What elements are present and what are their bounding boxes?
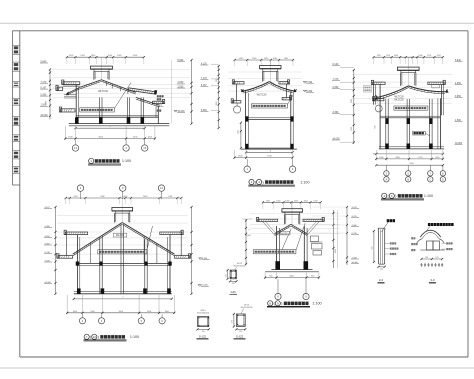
- drawing D rafter posts: [89, 242, 91, 263]
- drawing D right eave coping: [175, 256, 190, 259]
- drawing E left wing coping: [258, 219, 278, 221]
- drawing A left lower coping: [61, 109, 76, 112]
- svg-text:1:100: 1:100: [300, 180, 309, 184]
- drawing A main roof slopes: [80, 80, 102, 88]
- page top edge line: [0, 22, 474, 24]
- svg-text:370: 370: [232, 320, 234, 323]
- small label box between B and C: [364, 86, 372, 93]
- svg-text:1750: 1750: [418, 157, 422, 159]
- drawing E : section, bottom-middle: [263, 201, 321, 203]
- drawing D base black columns: [77, 288, 81, 293]
- drawing B title: [249, 179, 254, 184]
- page bottom edge line: [0, 367, 474, 369]
- drawing E wing struts: [263, 221, 276, 236]
- left title strip: [12, 31, 14, 185]
- drawing B right wall step: [286, 84, 288, 98]
- svg-text:4400: 4400: [335, 249, 337, 253]
- svg-text:1437: 1437: [377, 55, 381, 57]
- detail 3-3 bold label: [428, 223, 431, 226]
- svg-text:2500: 2500: [90, 311, 94, 313]
- svg-text:1:100: 1:100: [424, 194, 433, 198]
- drawing C bottom dims: [376, 153, 443, 155]
- svg-text:G-JZ1: G-JZ1: [199, 334, 207, 338]
- drawing B beams: [246, 119, 294, 121]
- drawing B : section, top-middle: [235, 59, 293, 61]
- drawing D mid beam: [77, 262, 170, 264]
- drawing B bottom dims: [246, 151, 293, 153]
- drawing D bottom grid bubbles: [82, 314, 84, 317]
- svg-text:3-3: 3-3: [430, 278, 435, 282]
- svg-text:5000: 5000: [119, 311, 123, 313]
- drawing C left vdim: [353, 70, 355, 144]
- svg-text:1437: 1437: [313, 200, 317, 202]
- svg-text:1050: 1050: [276, 200, 280, 202]
- drawing A boxed note with leader: [80, 108, 115, 112]
- svg-text:1500: 1500: [351, 127, 353, 131]
- drawing A left step box: [57, 87, 63, 90]
- svg-text:370: 370: [202, 331, 205, 333]
- svg-text:G-JZ2: G-JZ2: [236, 334, 244, 338]
- drawing A title: [89, 158, 94, 163]
- drawing A ridge ornament: [91, 66, 113, 69]
- svg-text:1502: 1502: [238, 130, 240, 134]
- drawing D right elevations (between D and E): [191, 207, 193, 294]
- drawing A right extension line: [171, 60, 173, 124]
- detail 2-2 bottom dim: [379, 266, 385, 268]
- svg-text:1050: 1050: [303, 200, 307, 202]
- drawing D bottom total dim: [74, 298, 172, 300]
- svg-text:3600: 3600: [216, 102, 218, 106]
- drawing B eave tip ornaments: [241, 89, 244, 93]
- drawing frame border: [13, 30, 469, 32]
- svg-text:1:100: 1:100: [122, 159, 131, 163]
- svg-text:1050: 1050: [418, 55, 422, 57]
- drawing D top grid bubbles: [77, 185, 83, 191]
- drawing E ridge ornament: [282, 209, 303, 212]
- svg-text:WLX30: WLX30: [116, 234, 125, 237]
- drawing E base: [271, 269, 312, 271]
- svg-text:1437: 1437: [266, 200, 270, 202]
- svg-text:650: 650: [374, 126, 376, 129]
- svg-text:4200: 4200: [289, 276, 293, 278]
- drawing B roof slopes with upturned eaves: [241, 82, 270, 92]
- drawing E columns: [276, 226, 278, 270]
- svg-text:C: C: [429, 177, 431, 181]
- svg-text:1:100: 1:100: [130, 335, 139, 339]
- svg-text:900: 900: [269, 276, 272, 278]
- svg-text:GZ1: GZ1: [231, 290, 237, 294]
- drawing A right lower roof: [136, 97, 160, 105]
- drawing E right wing coping: [303, 219, 323, 221]
- detail 3-3 tile section: [420, 230, 441, 237]
- drawing B left coping: [234, 82, 245, 84]
- drawing E left vdim: [245, 219, 247, 265]
- drawing A left eave tip: [66, 91, 69, 94]
- svg-text:A: A: [386, 177, 388, 181]
- svg-text:Φ6@100/200: Φ6@100/200: [197, 312, 210, 315]
- drawing B base line: [241, 148, 297, 150]
- drawing A : section, top-left: [67, 56, 144, 58]
- svg-text:2500: 2500: [147, 311, 151, 313]
- svg-text:1750: 1750: [386, 55, 390, 57]
- drawing C eave tip ornaments: [375, 96, 378, 100]
- drawing A grid bubbles: [75, 140, 77, 145]
- drawing D gable wall edge verticals: [65, 235, 67, 256]
- detail 3-3 right notes: [446, 242, 448, 244]
- drawing D left mid coping: [65, 232, 87, 235]
- drawing E right elevation chain: [346, 207, 348, 266]
- detail 2-2 right notes: [390, 242, 392, 244]
- drawing C left coping: [373, 82, 386, 84]
- detail GZ1 column section: [230, 270, 236, 279]
- drawing C ridge ornament: [397, 67, 419, 70]
- drawing B ridge ornament: [260, 66, 281, 69]
- drawing B left wall steps + detail circle: [236, 84, 238, 101]
- svg-text:300: 300: [216, 79, 218, 82]
- svg-text:1050: 1050: [294, 200, 298, 202]
- detail 2-2 coping section: [378, 228, 385, 264]
- svg-text:B: B: [407, 177, 409, 181]
- drawing C right wall: [441, 85, 443, 116]
- svg-text:900: 900: [311, 276, 314, 278]
- svg-text:250: 250: [239, 331, 242, 333]
- drawing D left eave coping: [58, 256, 73, 259]
- svg-text:12: 12: [93, 335, 97, 339]
- svg-text:1437: 1437: [436, 55, 440, 57]
- drawing E grid bubbles: [277, 279, 279, 293]
- svg-text:1600: 1600: [379, 157, 383, 159]
- drawing C left gable wall edge: [372, 85, 374, 105]
- svg-text:1437: 1437: [168, 196, 172, 198]
- drawing D top dim: [66, 197, 182, 199]
- drawing A bottom total dim: [76, 127, 145, 129]
- drawing A beams and base: [76, 116, 158, 118]
- svg-text:D: D: [442, 177, 444, 181]
- drawing E title: [268, 301, 273, 306]
- drawing B black marks: [245, 116, 248, 121]
- svg-text:120: 120: [425, 257, 428, 259]
- drawing D walls and columns: [76, 235, 78, 294]
- drawing B grid bubbles: [246, 159, 248, 166]
- drawing A bottom dim chain: [64, 126, 66, 140]
- drawing A left beam lines: [64, 94, 76, 96]
- svg-text:1500: 1500: [435, 157, 439, 159]
- drawing C beams: [380, 117, 440, 119]
- drawing D title: [84, 334, 89, 339]
- drawing C roof slopes: [376, 86, 409, 98]
- drawing D right mid coping: [160, 232, 182, 235]
- svg-text:2400: 2400: [100, 196, 104, 198]
- drawing C title: [382, 193, 387, 198]
- detail 2-2 bold label: [387, 219, 390, 222]
- drawing D ridge ornament: [112, 208, 133, 211]
- drawing C base: [379, 148, 444, 150]
- drawing D left elevations: [55, 207, 57, 294]
- svg-text:2-2: 2-2: [379, 278, 384, 282]
- drawing C double grid bubbles: [385, 165, 387, 171]
- drawing E right inner vdim: [332, 210, 334, 268]
- drawing A left gable coping: [63, 82, 80, 85]
- drawing C right coping: [428, 82, 444, 84]
- svg-text:WLZC30: WLZC30: [394, 99, 404, 102]
- svg-text:900: 900: [372, 247, 374, 250]
- svg-text:250: 250: [232, 283, 235, 285]
- svg-text:WLTC30: WLTC30: [257, 94, 267, 97]
- detail 3-3 left notes: [411, 237, 413, 239]
- drawing D bottom dim chain: [66, 295, 68, 314]
- svg-text:250: 250: [225, 274, 227, 277]
- svg-text:2400: 2400: [143, 196, 147, 198]
- drawing C left wall step + circle: [379, 85, 381, 149]
- drawing D base: [74, 293, 172, 295]
- drawing E black column feet: [275, 261, 280, 269]
- drawing C interior columns: [385, 99, 387, 149]
- svg-text:3000: 3000: [351, 99, 353, 103]
- drawing B right coping: [279, 82, 289, 84]
- svg-text:1437: 1437: [73, 196, 77, 198]
- svg-text:1:100: 1:100: [312, 302, 321, 306]
- svg-text:2500: 2500: [46, 101, 48, 105]
- drawing A black column marks: [75, 117, 79, 123]
- svg-text:1500: 1500: [165, 311, 169, 313]
- drawing A right elevation dim line: [191, 60, 193, 124]
- detail G-JZ1: [198, 317, 209, 327]
- drawing E bottom dim: [264, 273, 266, 280]
- svg-text:1050: 1050: [394, 55, 398, 57]
- drawing C small note box: [413, 131, 426, 135]
- drawing B body walls: [245, 91, 247, 149]
- detail 3-3 bottom dims: [422, 258, 443, 260]
- drawing C : section, top-right: [374, 56, 443, 58]
- svg-text:1050: 1050: [285, 200, 289, 202]
- detail G-JZ2: [236, 314, 245, 327]
- drawing E short roof slopes: [275, 224, 292, 234]
- svg-text:WLTC30: WLTC30: [98, 90, 108, 93]
- drawing D beam black marks: [76, 262, 79, 266]
- svg-text:240: 240: [380, 268, 383, 270]
- detail 2-2 left dim: [373, 231, 375, 262]
- svg-text:Φ6@100/200: Φ6@100/200: [241, 306, 254, 309]
- drawing E right attachment boxes: [310, 236, 318, 242]
- drawing A left elevation dim line: [49, 70, 51, 120]
- drawing D main roof slopes: [73, 223, 123, 255]
- drawing B left vdim: [218, 66, 220, 128]
- svg-text:2600: 2600: [396, 157, 400, 159]
- drawing B left small vdim: [240, 123, 242, 148]
- svg-text:1500: 1500: [73, 311, 77, 313]
- drawing C black marks: [385, 144, 389, 149]
- drawing A walls and columns: [75, 85, 77, 124]
- svg-text:120: 120: [435, 257, 438, 259]
- svg-text:1750: 1750: [427, 55, 431, 57]
- svg-text:Φ6@150/200: Φ6@150/200: [234, 265, 247, 268]
- drawing A right eave coping (sloped): [128, 86, 157, 94]
